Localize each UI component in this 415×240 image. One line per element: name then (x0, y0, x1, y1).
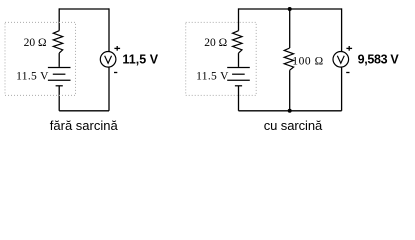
svg-text:cu sarcină: cu sarcină (264, 118, 323, 133)
battery B1 11.5 V (left circuit) (48, 68, 71, 86)
svg-text:11.5 V: 11.5 V (16, 70, 49, 82)
svg-text:100 Ω: 100 Ω (292, 56, 323, 68)
plus sign (left voltmeter) (114, 46, 120, 51)
wire: between resistor and battery (right) (238, 53, 240, 67)
battery B2 11.5 V (right circuit) (227, 68, 250, 86)
wire: middle branch top (right circuit) (289, 9, 291, 48)
wire: left circuit top (59, 8, 109, 10)
wire: right circuit top (239, 8, 342, 10)
wire: left circuit right vertical below voltmeter (108, 67, 110, 111)
wire: right circuit left vertical above resistor (238, 8, 240, 30)
meter letter V (right voltmeter) (337, 56, 344, 64)
wire: between resistor and battery (left) (58, 53, 60, 67)
wire: left circuit left vertical above resistor (58, 8, 60, 30)
meter letter V (left voltmeter) (105, 56, 112, 64)
svg-text:11,5 V: 11,5 V (122, 53, 158, 67)
voltmeter U1 circle (left) (100, 52, 116, 68)
resistor RL 100 ohm (right circuit middle branch) (284, 48, 293, 70)
wire: battery to bottom (right) (238, 86, 240, 111)
plus sign (right voltmeter) (346, 46, 352, 51)
wire: right circuit right vertical above voltmeter (341, 8, 343, 51)
wire: left circuit right vertical above voltmeter (108, 8, 110, 51)
wire: middle branch bottom (right circuit) (289, 70, 291, 111)
wire: battery to bottom (left) (58, 86, 60, 111)
svg-text:fără sarcină: fără sarcină (50, 118, 119, 133)
dashed source box (left circuit) (5, 22, 76, 95)
svg-text:20 Ω: 20 Ω (204, 37, 227, 49)
svg-text:11.5 V: 11.5 V (196, 70, 229, 82)
wire: right circuit right vertical below voltmeter (341, 67, 343, 111)
junction node top (right circuit) (288, 7, 292, 11)
junction node bottom (right circuit) (288, 109, 292, 113)
resistor R internal 20 ohm (right circuit) (233, 31, 242, 53)
svg-text:9,583 V: 9,583 V (358, 53, 400, 67)
svg-text:20 Ω: 20 Ω (24, 37, 47, 49)
minus sign (left voltmeter) (114, 72, 117, 74)
wire: right circuit bottom (239, 110, 342, 112)
dashed source box (right circuit) (186, 22, 257, 95)
wire: left circuit bottom (59, 110, 109, 112)
resistor R internal 20 ohm (left circuit) (53, 31, 62, 53)
voltmeter U2 circle (right) (333, 52, 349, 68)
minus sign (right voltmeter) (346, 72, 349, 74)
